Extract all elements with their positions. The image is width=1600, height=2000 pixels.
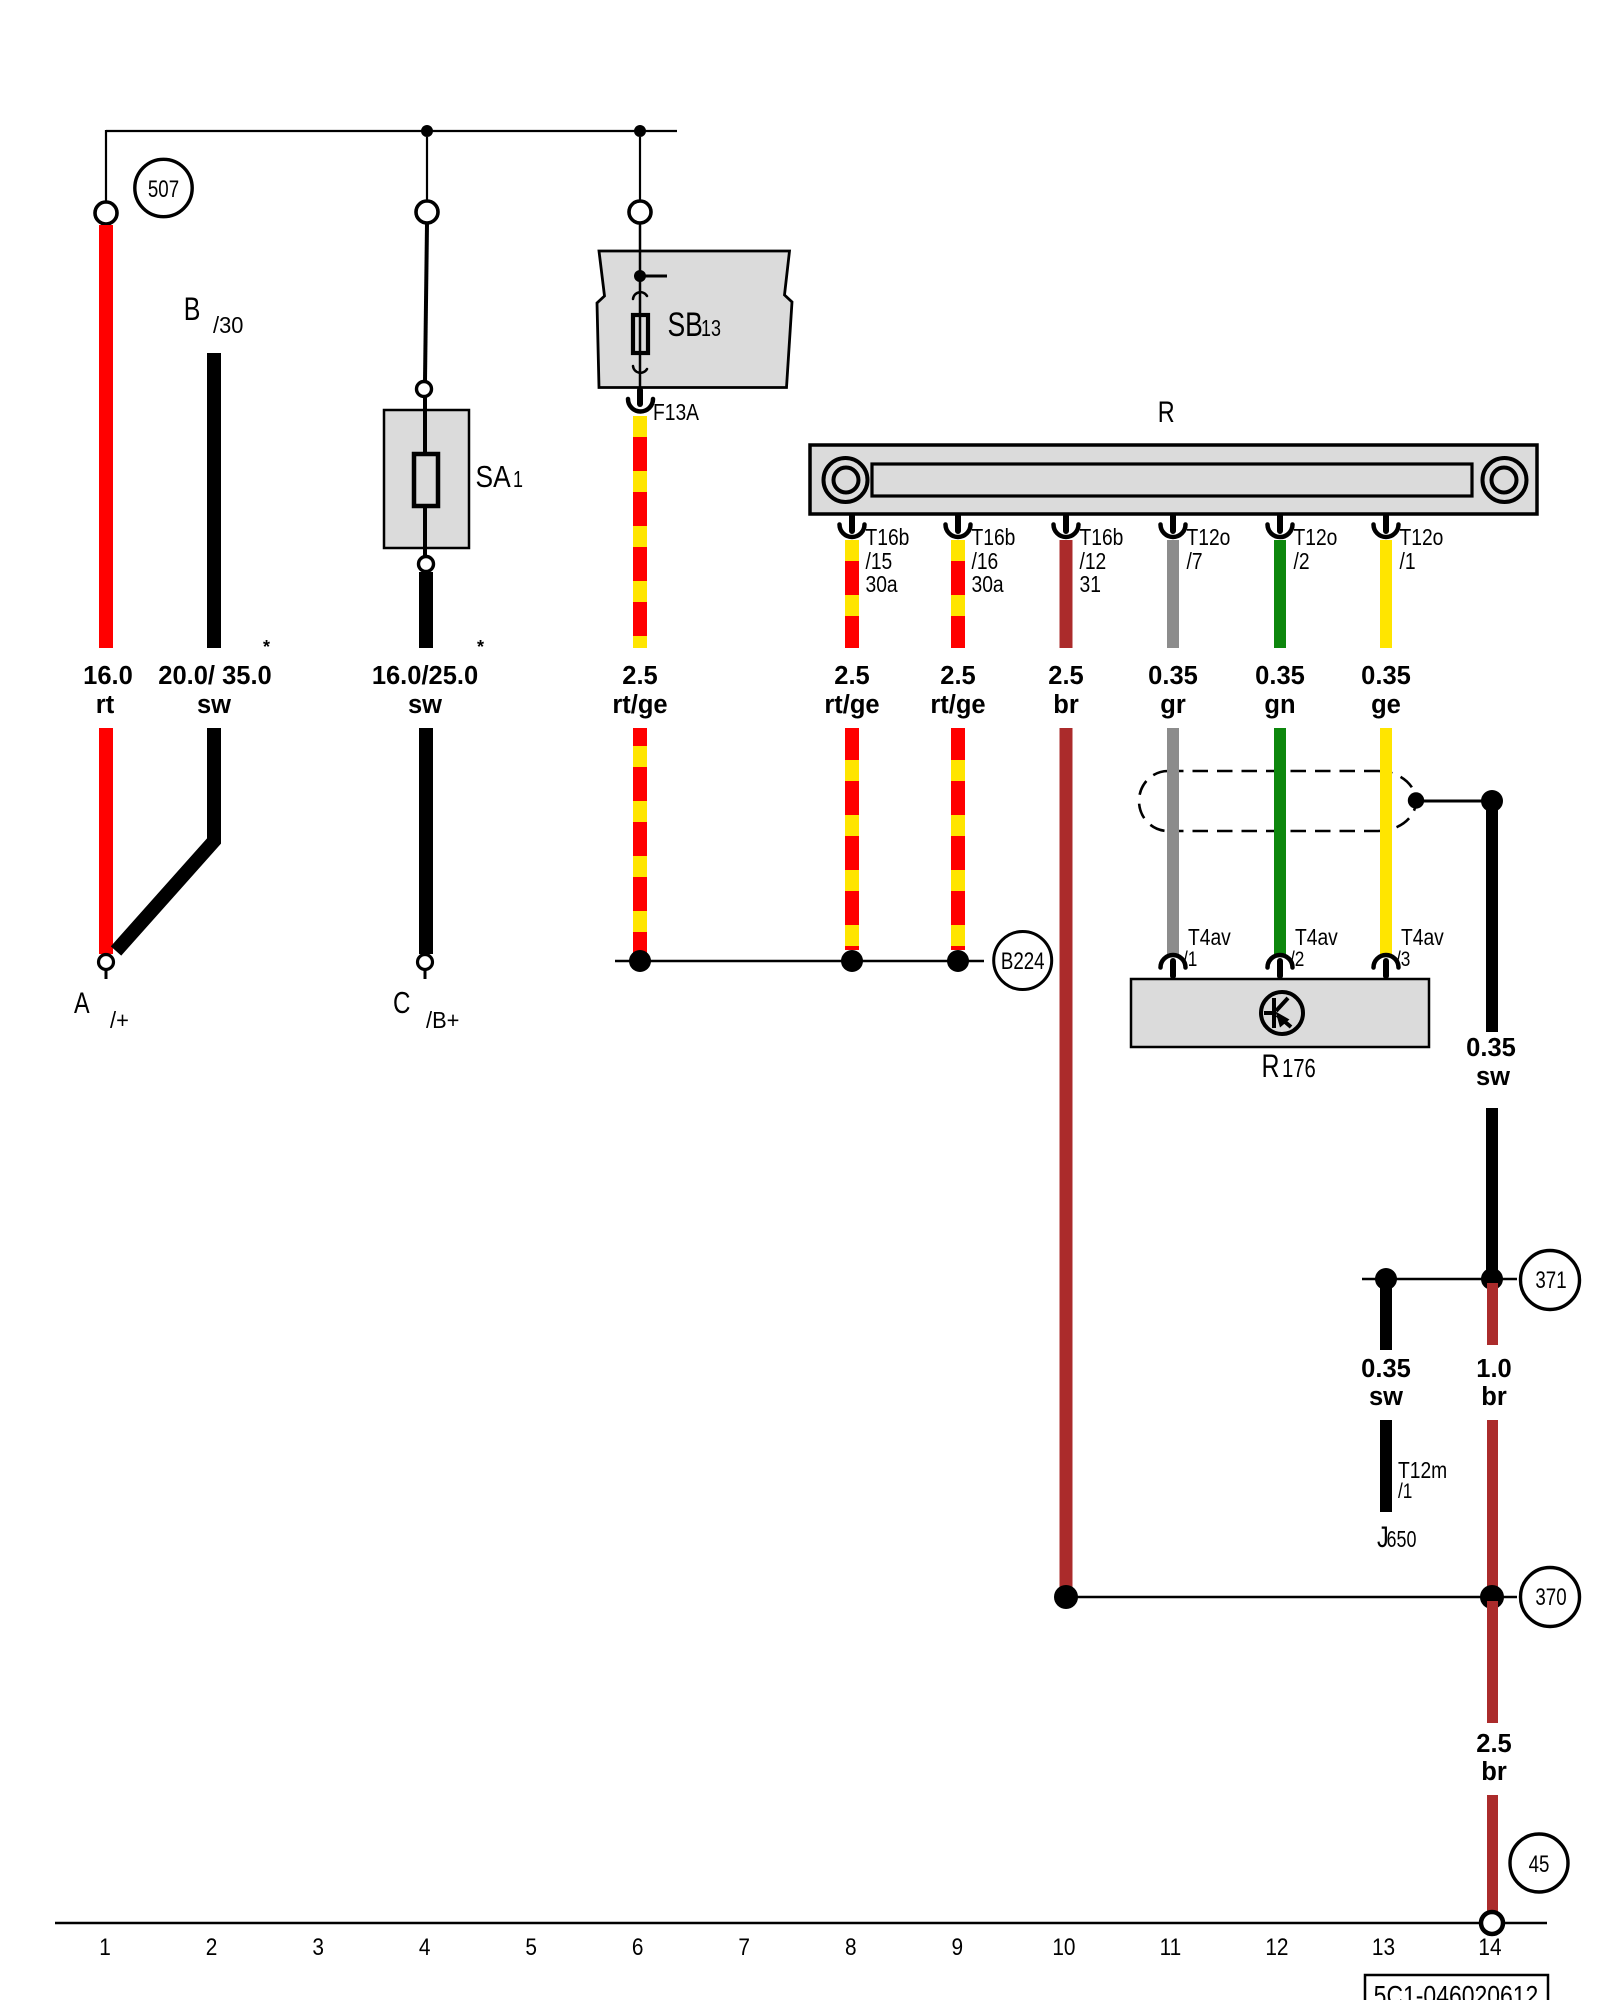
svg-text:sw: sw bbox=[1369, 1383, 1403, 1411]
svg-text:45: 45 bbox=[1529, 1851, 1550, 1878]
svg-text:/2: /2 bbox=[1290, 949, 1304, 972]
svg-text:12: 12 bbox=[1265, 1932, 1288, 1960]
svg-text:2: 2 bbox=[206, 1932, 218, 1960]
svg-text:SA: SA bbox=[476, 460, 512, 494]
svg-text:5C1-046020612: 5C1-046020612 bbox=[1374, 1981, 1539, 2000]
svg-text:rt/ge: rt/ge bbox=[930, 691, 985, 719]
svg-text:0.35: 0.35 bbox=[1466, 1034, 1516, 1062]
svg-text:/+: /+ bbox=[110, 1007, 129, 1033]
svg-text:5: 5 bbox=[525, 1932, 537, 1960]
svg-text:br: br bbox=[1481, 1758, 1507, 1786]
svg-text:/1: /1 bbox=[1398, 1481, 1412, 1504]
svg-text:30a: 30a bbox=[866, 571, 898, 597]
svg-text:T16b: T16b bbox=[1080, 524, 1124, 550]
svg-text:B: B bbox=[184, 292, 201, 328]
svg-text:R: R bbox=[1262, 1049, 1280, 1085]
svg-text:rt: rt bbox=[96, 691, 115, 719]
svg-text:ge: ge bbox=[1371, 691, 1401, 719]
svg-text:2.5: 2.5 bbox=[834, 662, 869, 690]
svg-text:1: 1 bbox=[99, 1932, 111, 1960]
svg-text:2.5: 2.5 bbox=[1476, 1730, 1511, 1758]
svg-text:SB: SB bbox=[668, 306, 703, 344]
svg-text:/30: /30 bbox=[213, 312, 243, 338]
svg-text:14: 14 bbox=[1478, 1932, 1501, 1960]
svg-text:T4av: T4av bbox=[1188, 924, 1231, 950]
svg-text:0.35: 0.35 bbox=[1361, 1355, 1411, 1383]
svg-text:9: 9 bbox=[952, 1932, 964, 1960]
svg-text:7: 7 bbox=[738, 1932, 750, 1960]
svg-text:T12o: T12o bbox=[1187, 524, 1231, 550]
svg-text:sw: sw bbox=[1476, 1063, 1510, 1091]
svg-text:/B+: /B+ bbox=[426, 1007, 459, 1033]
svg-text:/3: /3 bbox=[1396, 949, 1410, 972]
svg-text:A: A bbox=[74, 986, 90, 1019]
svg-text:sw: sw bbox=[408, 691, 442, 719]
svg-text:*: * bbox=[477, 637, 484, 657]
svg-text:rt/ge: rt/ge bbox=[824, 691, 879, 719]
svg-text:2.5: 2.5 bbox=[940, 662, 975, 690]
svg-text:0.35: 0.35 bbox=[1361, 662, 1411, 690]
svg-text:0.35: 0.35 bbox=[1148, 662, 1198, 690]
svg-text:30a: 30a bbox=[972, 571, 1004, 597]
svg-text:176: 176 bbox=[1282, 1054, 1316, 1083]
svg-text:16.0/25.0: 16.0/25.0 bbox=[372, 662, 478, 690]
svg-text:2.5: 2.5 bbox=[1048, 662, 1083, 690]
svg-text:650: 650 bbox=[1387, 1527, 1417, 1553]
svg-text:F13A: F13A bbox=[653, 399, 700, 425]
svg-text:1: 1 bbox=[513, 467, 523, 493]
svg-text:20.0/ 35.0: 20.0/ 35.0 bbox=[158, 662, 271, 690]
svg-text:31: 31 bbox=[1080, 571, 1101, 597]
svg-text:br: br bbox=[1053, 691, 1079, 719]
svg-text:16.0: 16.0 bbox=[83, 662, 133, 690]
svg-text:gn: gn bbox=[1264, 691, 1295, 719]
svg-text:*: * bbox=[263, 637, 270, 657]
svg-text:3: 3 bbox=[312, 1932, 324, 1960]
svg-text:13: 13 bbox=[1372, 1932, 1395, 1960]
svg-text:B224: B224 bbox=[1001, 948, 1045, 975]
svg-text:2.5: 2.5 bbox=[622, 662, 657, 690]
svg-text:T16b: T16b bbox=[866, 524, 910, 550]
svg-text:C: C bbox=[393, 985, 410, 1020]
svg-text:/7: /7 bbox=[1187, 548, 1203, 574]
svg-text:13: 13 bbox=[701, 316, 721, 342]
svg-text:371: 371 bbox=[1535, 1267, 1566, 1294]
svg-text:R: R bbox=[1158, 395, 1175, 428]
svg-text:370: 370 bbox=[1535, 1584, 1566, 1611]
svg-text:T12o: T12o bbox=[1294, 524, 1338, 550]
svg-text:sw: sw bbox=[197, 691, 231, 719]
svg-text:T4av: T4av bbox=[1401, 924, 1444, 950]
svg-text:507: 507 bbox=[148, 176, 179, 203]
svg-text:T12o: T12o bbox=[1400, 524, 1444, 550]
svg-text:T16b: T16b bbox=[972, 524, 1016, 550]
svg-text:/1: /1 bbox=[1183, 949, 1197, 972]
svg-text:gr: gr bbox=[1160, 691, 1186, 719]
svg-text:11: 11 bbox=[1160, 1932, 1182, 1960]
svg-text:6: 6 bbox=[632, 1932, 644, 1960]
svg-text:4: 4 bbox=[419, 1932, 431, 1960]
svg-text:/1: /1 bbox=[1400, 548, 1416, 574]
svg-text:br: br bbox=[1481, 1383, 1507, 1411]
svg-text:10: 10 bbox=[1052, 1932, 1075, 1960]
svg-text:rt/ge: rt/ge bbox=[612, 691, 667, 719]
svg-text:/2: /2 bbox=[1294, 548, 1310, 574]
svg-text:1.0: 1.0 bbox=[1476, 1355, 1511, 1383]
svg-text:T4av: T4av bbox=[1295, 924, 1338, 950]
svg-text:0.35: 0.35 bbox=[1255, 662, 1305, 690]
svg-text:8: 8 bbox=[845, 1932, 857, 1960]
